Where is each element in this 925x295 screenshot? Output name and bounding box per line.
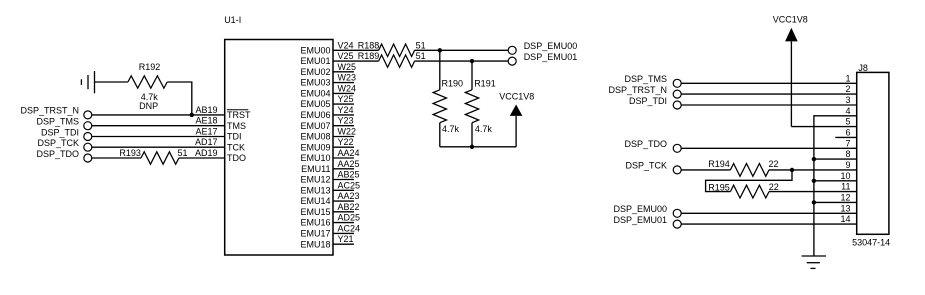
svg-text:22: 22 [769, 159, 779, 169]
wire EMU00 to R188 [333, 49, 379, 51]
svg-text:AE18: AE18 [195, 116, 217, 126]
wire EMU00 down to R190 [439, 50, 441, 90]
svg-text:DSP_TMS: DSP_TMS [36, 117, 79, 127]
U1 pin V25 EMU01 [300, 51, 353, 66]
svg-text:R192: R192 [139, 62, 161, 72]
junction R192/TRST [190, 113, 194, 117]
svg-text:TMS: TMS [227, 121, 246, 131]
svg-text:EMU04: EMU04 [300, 89, 330, 99]
wire EMU01 down to R191 [471, 61, 473, 90]
svg-text:TDO: TDO [227, 153, 246, 163]
U1 pin AE17 TDI [195, 127, 241, 142]
svg-text:W24: W24 [338, 83, 357, 93]
resistor R189 51 [358, 51, 426, 67]
svg-text:2: 2 [845, 84, 850, 94]
svg-text:EMU09: EMU09 [300, 142, 330, 152]
U1 pin AD17 TCK [195, 137, 245, 152]
power VCC1V8 (J8 pin 5) [773, 15, 808, 127]
wire GND bus to J8 pin8 [814, 158, 857, 160]
junction EMU00/R190 [438, 48, 442, 52]
svg-text:AA23: AA23 [338, 191, 360, 201]
U1 pin Y25 EMU05 [300, 94, 354, 109]
wire R192 to TRST net [167, 82, 192, 115]
svg-text:4: 4 [845, 106, 850, 116]
U1 pin AA23 EMU14 [300, 191, 359, 206]
svg-text:11: 11 [841, 182, 850, 192]
wire GND bus to J8 pin12 [814, 201, 857, 203]
svg-text:EMU10: EMU10 [300, 153, 330, 163]
svg-text:EMU11: EMU11 [301, 164, 330, 174]
svg-text:7: 7 [845, 138, 850, 148]
wire TCK node to R195 [706, 170, 792, 192]
resistor R195 22 [708, 182, 778, 198]
svg-text:DSP_TDI: DSP_TDI [41, 127, 79, 137]
ground (left of R192) [81, 71, 94, 93]
U1 pin AD25 EMU16 [300, 213, 360, 228]
ground (J8) [802, 256, 827, 268]
svg-text:EMU03: EMU03 [300, 78, 330, 88]
wire VCC rail (bottom) [440, 146, 516, 148]
svg-text:R190: R190 [442, 78, 464, 88]
wire R194 to J8 pin9 [769, 169, 857, 171]
svg-text:EMU02: EMU02 [300, 67, 330, 77]
svg-text:R189: R189 [358, 51, 380, 61]
svg-text:EMU13: EMU13 [300, 185, 330, 195]
svg-text:51: 51 [416, 40, 426, 50]
wire DSP_TMS to U1 TMS [92, 125, 225, 127]
svg-text:W25: W25 [338, 62, 357, 72]
wire R191 to VCC rail [471, 123, 473, 147]
svg-text:13: 13 [840, 203, 850, 213]
svg-text:AC24: AC24 [338, 223, 361, 233]
svg-text:EMU17: EMU17 [300, 229, 330, 239]
U1 pin AB22 EMU15 [300, 202, 359, 217]
svg-text:EMU16: EMU16 [300, 218, 330, 228]
port DSP_EMU00 [508, 46, 516, 54]
junction bus/pin8 [812, 157, 816, 161]
svg-text:R191: R191 [474, 78, 496, 88]
wire R188 to DSP_EMU00 [415, 49, 509, 51]
svg-text:DSP_TDI: DSP_TDI [629, 96, 667, 106]
junction node TCK/R195 [790, 168, 794, 172]
svg-text:DSP_TCK: DSP_TCK [37, 138, 79, 148]
connector J8 body [857, 72, 889, 234]
svg-text:EMU14: EMU14 [300, 196, 330, 206]
svg-text:4.7k: 4.7k [442, 124, 460, 134]
svg-text:51: 51 [178, 148, 188, 158]
svg-text:W23: W23 [338, 73, 357, 83]
svg-text:R188: R188 [358, 40, 380, 50]
junction bus/pin10 [812, 179, 816, 183]
wire EMU01 to R189 [333, 60, 379, 62]
svg-text:R194: R194 [708, 159, 730, 169]
svg-text:EMU07: EMU07 [300, 121, 330, 131]
svg-text:U1-I: U1-I [224, 15, 241, 25]
U1 pin AD19 TDO [195, 148, 246, 163]
wire DSP_TDO to J8 pin7 [681, 147, 857, 149]
wire R189 to DSP_EMU01 [415, 60, 509, 62]
wire R195 to J8 pin11 [769, 191, 857, 193]
svg-text:DSP_TMS: DSP_TMS [624, 74, 667, 84]
svg-text:6: 6 [845, 127, 850, 137]
svg-text:AD25: AD25 [338, 213, 361, 223]
wire DSP_TDI to J8 pin3 [681, 104, 857, 106]
wire GND bus to J8 pin4 [814, 116, 857, 256]
svg-text:R195: R195 [708, 183, 730, 193]
svg-text:10: 10 [840, 171, 850, 181]
U1 pin AA25 EMU11 [301, 159, 359, 174]
svg-text:EMU00: EMU00 [300, 45, 330, 55]
svg-text:AB22: AB22 [338, 202, 360, 212]
svg-text:AD19: AD19 [195, 148, 218, 158]
svg-text:51: 51 [416, 51, 426, 61]
svg-text:53047-14: 53047-14 [852, 238, 890, 248]
U1 pin W25 EMU02 [300, 62, 356, 77]
U1 pin AA24 EMU10 [300, 148, 359, 163]
svg-text:DSP_TDO: DSP_TDO [624, 139, 667, 149]
svg-text:AB19: AB19 [195, 105, 217, 115]
junction bus/pin12 [812, 200, 816, 204]
svg-text:AC25: AC25 [338, 180, 361, 190]
U1 pin W22 EMU08 [300, 127, 356, 142]
wire DSP_EMU00 to J8 pin13 [681, 212, 857, 214]
wire R190 to VCC rail [439, 123, 441, 147]
resistor R190 4.7k [433, 78, 463, 134]
svg-text:AE17: AE17 [195, 127, 217, 137]
svg-text:V24: V24 [338, 40, 354, 50]
svg-text:9: 9 [845, 160, 850, 170]
wire DSP_TMS to J8 pin1 [681, 82, 857, 84]
U1 pin AE18 TMS [195, 116, 246, 131]
junction EMU01/R191 [470, 59, 474, 63]
svg-text:V25: V25 [338, 51, 354, 61]
svg-text:VCC1V8: VCC1V8 [773, 15, 808, 25]
svg-text:DSP_TCK: DSP_TCK [625, 161, 667, 171]
wire DSP_TCK to U1 TCK [92, 146, 225, 148]
svg-text:Y22: Y22 [338, 137, 354, 147]
U1 pin Y22 EMU09 [300, 137, 354, 152]
U1 pin AB25 EMU12 [300, 170, 359, 185]
svg-text:EMU15: EMU15 [300, 207, 330, 217]
resistor R188 51 [358, 40, 426, 56]
wire R193 to U1 TDO [179, 157, 225, 159]
svg-text:EMU12: EMU12 [300, 175, 330, 185]
wire DSP_TCK to R194 [681, 169, 730, 171]
svg-text:AA24: AA24 [338, 148, 360, 158]
wire ground to R192 [95, 81, 128, 83]
svg-text:EMU08: EMU08 [300, 132, 330, 142]
U1 pin W24 EMU04 [300, 83, 356, 98]
svg-text:DSP_TRST_N: DSP_TRST_N [608, 85, 667, 95]
svg-text:AD17: AD17 [195, 137, 218, 147]
svg-text:TRST: TRST [227, 110, 251, 120]
svg-text:DSP_EMU00: DSP_EMU00 [613, 204, 667, 214]
U1 pin W23 EMU03 [300, 73, 356, 88]
svg-text:J8: J8 [858, 63, 868, 73]
svg-text:DNP: DNP [139, 101, 158, 111]
stub J8 pin6 [835, 136, 856, 138]
wire GND bus to J8 pin10 [814, 180, 857, 182]
svg-text:EMU05: EMU05 [300, 99, 330, 109]
svg-text:8: 8 [845, 149, 850, 159]
svg-text:R193: R193 [119, 148, 141, 158]
wire DSP_TRST_N to J8 pin2 [681, 93, 857, 95]
wire DSP_TDO to R193 [92, 157, 141, 159]
wire DSP_EMU01 to J8 pin14 [681, 223, 857, 225]
U1 pin V24 EMU00 [300, 40, 353, 55]
svg-text:VCC1V8: VCC1V8 [499, 92, 534, 102]
svg-text:Y24: Y24 [338, 105, 354, 115]
junction R191/VCC rail [470, 145, 474, 149]
svg-text:DSP_TDO: DSP_TDO [36, 149, 79, 159]
svg-text:12: 12 [840, 192, 850, 202]
U1 pin AB19 TRST [195, 105, 251, 120]
svg-text:DSP_EMU01: DSP_EMU01 [524, 52, 578, 62]
svg-text:Y23: Y23 [338, 116, 354, 126]
svg-text:22: 22 [769, 182, 779, 192]
U1 pin Y24 EMU06 [300, 105, 354, 120]
svg-text:DSP_EMU01: DSP_EMU01 [613, 215, 667, 225]
resistor R192 4.7k DNP [128, 62, 167, 111]
svg-text:14: 14 [840, 214, 850, 224]
resistor R191 4.7k [465, 78, 495, 134]
svg-text:TDI: TDI [227, 132, 242, 142]
svg-text:EMU01: EMU01 [300, 56, 330, 66]
U1 pin Y21 EMU18 [300, 234, 354, 249]
svg-text:5: 5 [845, 117, 850, 127]
wire VCC to J8 pin5 [791, 126, 856, 128]
svg-text:DSP_TRST_N: DSP_TRST_N [20, 106, 79, 116]
svg-text:DSP_EMU00: DSP_EMU00 [524, 41, 578, 51]
resistor R194 22 [708, 159, 778, 176]
svg-text:1: 1 [845, 73, 850, 83]
svg-text:Y25: Y25 [338, 94, 354, 104]
U1 pin AC24 EMU17 [300, 223, 360, 238]
port DSP_EMU01 [508, 57, 516, 65]
svg-text:EMU18: EMU18 [300, 239, 330, 249]
svg-text:3: 3 [845, 95, 850, 105]
power VCC1V8 (pull-up rail) [499, 92, 534, 147]
svg-text:AB25: AB25 [338, 170, 360, 180]
U1 pin AC25 EMU13 [300, 180, 360, 195]
svg-text:TCK: TCK [227, 142, 245, 152]
resistor R193 51 [119, 148, 187, 164]
svg-text:4.7k: 4.7k [475, 124, 493, 134]
IC U1-I body [225, 40, 333, 256]
svg-text:AA25: AA25 [338, 159, 360, 169]
U1 pin Y23 EMU07 [300, 116, 354, 131]
svg-text:W22: W22 [338, 127, 357, 137]
wire DSP_TDI to U1 TDI [92, 136, 225, 138]
svg-text:Y21: Y21 [338, 234, 354, 244]
wire DSP_TRST_N to U1 TRST [92, 114, 225, 116]
svg-text:EMU06: EMU06 [300, 110, 330, 120]
